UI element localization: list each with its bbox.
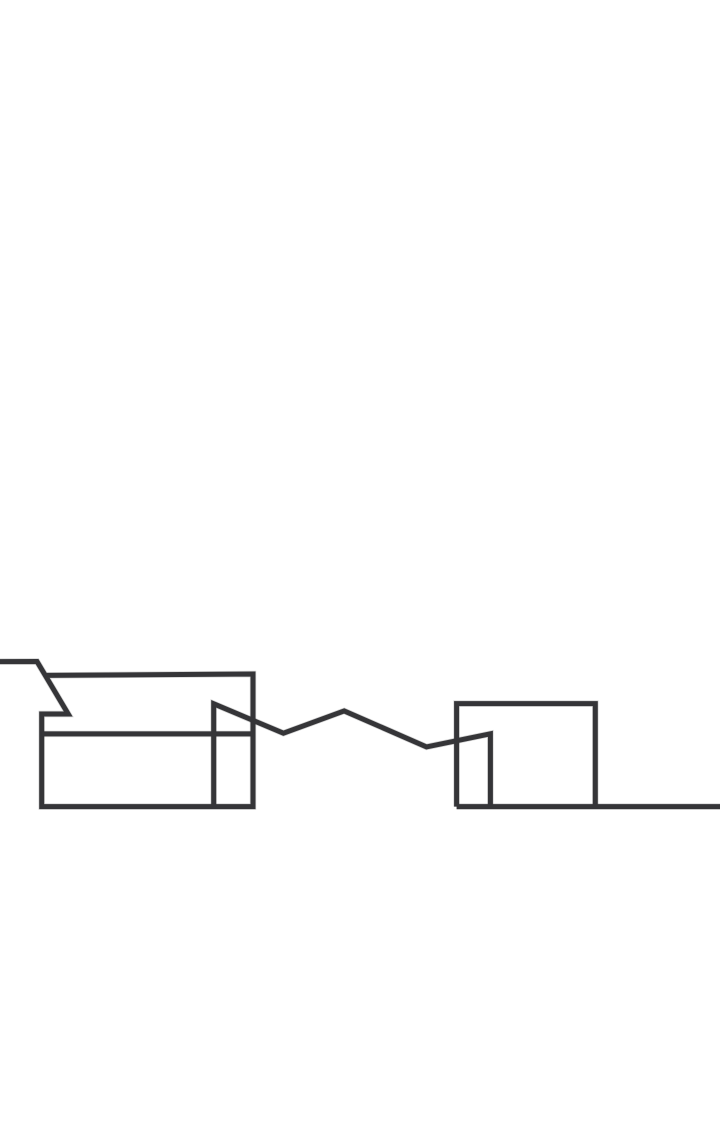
soft halo under-layer for feathered edges (0, 662, 720, 807)
right box outline (457, 704, 596, 807)
left box inner horizontal divider (42, 731, 253, 736)
left box outline with entry line and notch (0, 662, 253, 807)
inner vertical with zigzag wire to right box inner vertical (214, 704, 491, 807)
baseline ground line (457, 804, 720, 809)
